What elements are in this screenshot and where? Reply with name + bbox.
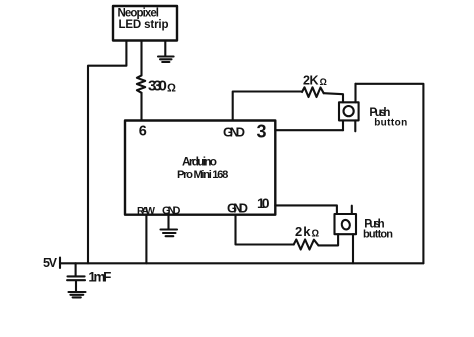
svg-text:GND: GND: [227, 200, 248, 215]
svg-text:Ω: Ω: [312, 228, 320, 239]
resistor R3 2k ohm: [294, 240, 319, 250]
ground symbol (Arduino GND): [161, 230, 178, 237]
wire: Neopixel ground pin: [164, 41, 166, 56]
svg-text:6: 6: [139, 124, 147, 140]
svg-text:Arduino: Arduino: [182, 155, 217, 169]
wire: resistor R3 to button S2 bottom-left leg: [318, 234, 338, 245]
wire: Arduino pin 3 to button S1: [275, 129, 343, 131]
5V terminal tick: [59, 258, 61, 269]
svg-text:2K: 2K: [303, 74, 319, 88]
svg-text:button: button: [374, 118, 407, 129]
svg-text:Neopixel: Neopixel: [118, 8, 160, 20]
capacitor C1 top lead: [75, 263, 77, 275]
push button S2 top-right dangling leg: [351, 206, 353, 214]
wire: top-right loop from S1 to 5V rail: [356, 84, 424, 263]
push button S1 bottom-left leg: [342, 120, 344, 130]
svg-text:GND: GND: [162, 205, 181, 217]
wire: resistor to Arduino pin 6: [140, 93, 142, 121]
resistor R1 330 ohm: [137, 75, 145, 92]
wire: Arduino pin 10 to button S2 top-left leg: [275, 205, 337, 214]
svg-text:button: button: [363, 228, 393, 240]
svg-text:Ω: Ω: [320, 77, 327, 88]
push button S2 bottom-right leg to 5V rail: [352, 234, 354, 263]
svg-text:RAW: RAW: [137, 206, 156, 217]
push button S1 top-right leg to top rail: [354, 84, 356, 103]
op-amp? no: Arduino U1 box: [125, 121, 275, 215]
push button S1 actuator circle: [344, 106, 354, 116]
svg-text:5V: 5V: [43, 256, 58, 270]
svg-text:10: 10: [257, 195, 270, 211]
svg-text:3: 3: [257, 122, 267, 142]
svg-text:2k: 2k: [295, 224, 311, 239]
push button S1 bottom-right dangling leg: [354, 120, 356, 131]
svg-text:GND: GND: [223, 125, 245, 140]
wire: Neopixel data pin down to resistor: [140, 41, 142, 75]
svg-text:LED strip: LED strip: [119, 19, 169, 31]
svg-text:Pro Mini 168: Pro Mini 168: [177, 169, 228, 181]
wire: Arduino RAW pin to 5V rail: [145, 215, 147, 264]
capacitor C1 plates: [67, 276, 85, 280]
push button S1 body: [339, 102, 359, 120]
capacitor C1 bottom lead: [75, 281, 77, 291]
ground symbol (capacitor): [69, 292, 86, 297]
wire: Neopixel left pin to 5V rail: [88, 41, 126, 263]
resistor R2 2K ohm: [302, 87, 324, 97]
push button S2 actuator circle: [341, 219, 351, 230]
wire: 5V bottom rail: [60, 262, 423, 264]
svg-text:Ω: Ω: [167, 83, 176, 95]
svg-text:1mF: 1mF: [88, 270, 111, 285]
wire: Arduino GND(bottom) pin down to resistor R3: [236, 215, 294, 245]
ground stub below Arduino GND pin: [167, 215, 169, 229]
wire: resistor R2 to push button S1 top-left leg: [324, 93, 343, 102]
svg-text:330: 330: [148, 77, 167, 94]
wire: Arduino GND(top) pin up and to 2K resistor: [233, 92, 302, 121]
push button S2 body: [335, 214, 357, 234]
Neopixel LED strip box: [113, 6, 177, 41]
ground symbol (Neopixel): [158, 57, 174, 63]
